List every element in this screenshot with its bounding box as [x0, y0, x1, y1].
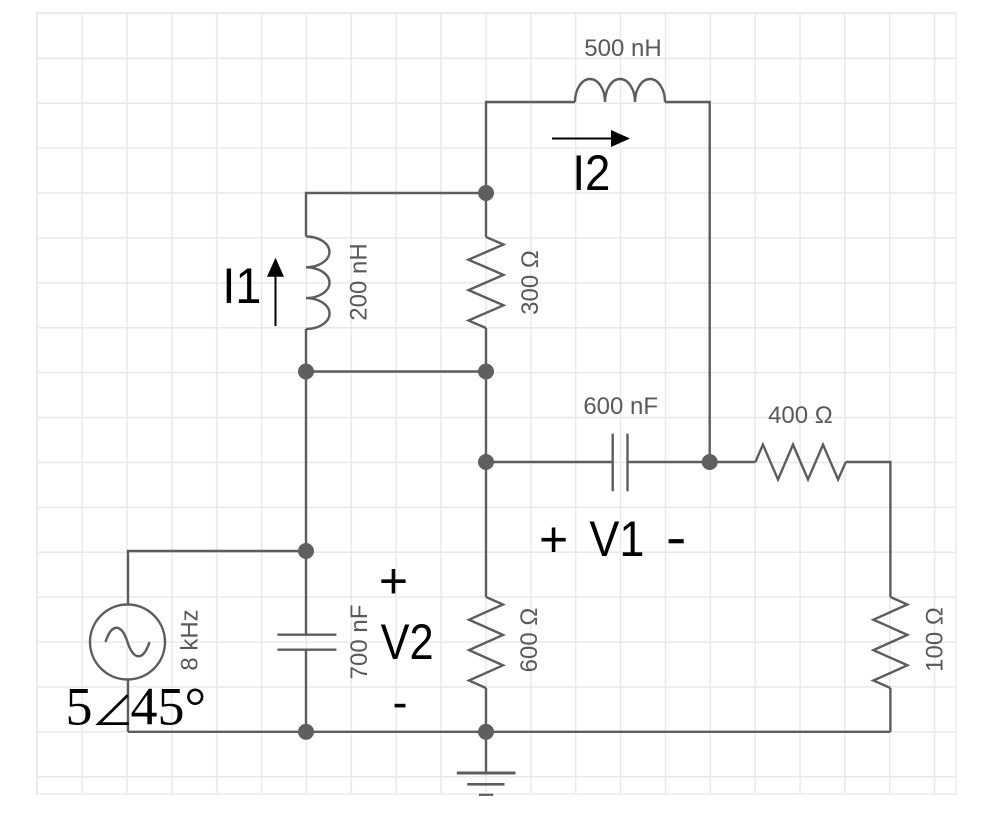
- wire node B to node C: [306, 370, 486, 372]
- node E junction dot: [298, 543, 314, 559]
- wire top-right corner down: [665, 102, 710, 462]
- wire node E to source corner: [128, 551, 306, 605]
- node B junction dot: [298, 364, 314, 380]
- svg-text:45°: 45°: [131, 677, 207, 737]
- svg-text:+: +: [539, 512, 568, 568]
- svg-text:100 Ω: 100 Ω: [922, 607, 949, 672]
- arrow I1: [275, 276, 277, 326]
- wire resistor R4 bottom to corner: [889, 688, 891, 732]
- label V2 minus: [395, 704, 406, 708]
- wire node A to left corner: [306, 193, 486, 237]
- node F junction dot: [702, 454, 718, 470]
- capacitor C2 700 nF plates: [277, 635, 336, 650]
- resistor R2 400 ohm horizontal: [755, 445, 845, 480]
- wire resistor R1 bottom to node C: [485, 328, 487, 372]
- resistor R1 300 ohm vertical: [469, 237, 504, 328]
- node D junction dot: [478, 454, 494, 470]
- svg-text:200 nH: 200 nH: [346, 243, 373, 320]
- wire node F to resistor R2: [710, 461, 756, 463]
- inductor L2 500 nH: [575, 79, 665, 102]
- resistor R3 600 ohm vertical: [469, 597, 503, 688]
- wire node E down to capacitor C2: [305, 551, 307, 635]
- svg-text:700 nF: 700 nF: [346, 605, 373, 680]
- svg-text:8 kHz: 8 kHz: [177, 609, 204, 670]
- svg-text:5: 5: [66, 677, 93, 737]
- capacitor C1 600 nF plates: [613, 434, 628, 492]
- svg-text:I1: I1: [222, 258, 261, 314]
- svg-text:500 nH: 500 nH: [584, 35, 661, 62]
- node A junction dot: [478, 185, 494, 201]
- node G junction dot: [478, 724, 494, 740]
- wire top-left vertical (node A to top corner): [486, 102, 575, 193]
- inductor L1 200 nH: [306, 237, 330, 330]
- AC source sine: [106, 628, 150, 657]
- svg-text:600 Ω: 600 Ω: [516, 608, 543, 673]
- resistor R4 100 ohm vertical: [873, 597, 907, 688]
- ground bars: [457, 772, 516, 775]
- wire node D down to resistor R3: [485, 462, 487, 597]
- arrow I2: [552, 138, 612, 140]
- svg-text:I2: I2: [572, 145, 610, 201]
- wire source bottom to bottom rail: [127, 680, 129, 732]
- node C junction dot: [478, 364, 494, 380]
- wire capacitor C2 to bottom rail: [305, 650, 307, 732]
- ground stub: [485, 732, 487, 773]
- svg-text:300 Ω: 300 Ω: [517, 250, 544, 315]
- wire node A down to resistor R1: [485, 193, 487, 237]
- angle symbol: [99, 695, 129, 723]
- wire bottom rail: [128, 731, 890, 733]
- wire capacitor C1 to node F: [628, 461, 710, 463]
- wire inductor bottom to node B: [305, 329, 307, 372]
- svg-text:V1: V1: [589, 511, 644, 567]
- wire resistor R2 to right corner down: [846, 462, 891, 597]
- svg-text:600 nF: 600 nF: [583, 393, 658, 420]
- wire node C down to node D: [485, 372, 487, 463]
- svg-text:+: +: [379, 553, 408, 609]
- wire node B down to node E: [305, 372, 307, 552]
- svg-text:400 Ω: 400 Ω: [768, 402, 833, 429]
- node H junction dot: [298, 724, 314, 740]
- wire node D to capacitor C1: [486, 461, 613, 463]
- label V1 minus: [669, 539, 684, 543]
- svg-text:V2: V2: [381, 614, 434, 670]
- AC source V circle: [90, 605, 165, 680]
- wire resistor R3 bottom to node G: [485, 688, 487, 732]
